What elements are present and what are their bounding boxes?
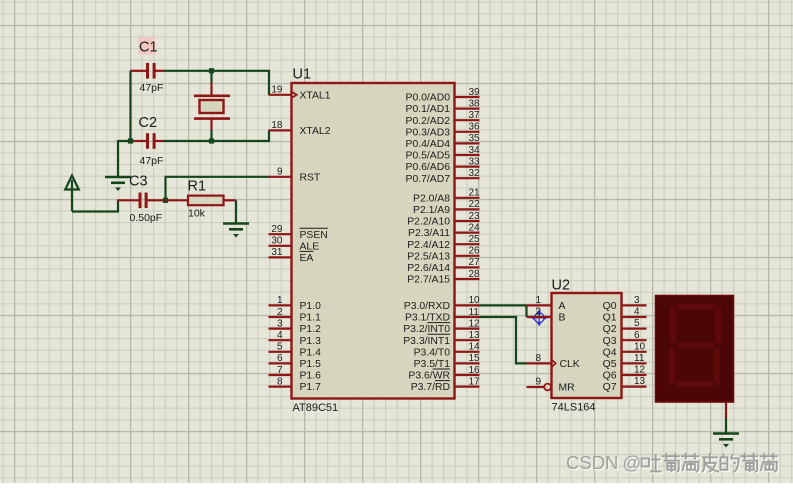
U2 pin 13 Q7 <box>603 376 647 393</box>
svg-text:P1.1: P1.1 <box>300 313 322 324</box>
C1 value 47pF <box>140 82 164 94</box>
svg-text:P0.4/AD4: P0.4/AD4 <box>406 139 451 150</box>
svg-text:P2.6/A14: P2.6/A14 <box>407 263 450 274</box>
wire R1 to ground <box>235 200 237 223</box>
svg-text:P1.7: P1.7 <box>300 382 322 393</box>
node marker (blue crosshair at U2 pin B) <box>531 310 548 327</box>
svg-text:P3.7/RD: P3.7/RD <box>411 382 450 393</box>
svg-text:38: 38 <box>469 98 481 109</box>
svg-text:P3.3/INT1: P3.3/INT1 <box>403 336 450 347</box>
svg-text:P0.5/AD5: P0.5/AD5 <box>406 151 451 162</box>
svg-text:36: 36 <box>469 122 481 133</box>
svg-text:29: 29 <box>271 224 283 235</box>
wire P3.0/RXD to U2 A <box>480 304 527 306</box>
junction crystal top <box>209 68 214 73</box>
svg-text:XTAL1: XTAL1 <box>300 90 331 101</box>
U1 pin 11 P3.1/TXD <box>405 307 480 324</box>
svg-text:13: 13 <box>469 330 481 341</box>
U1 pin 34 P0.5/AD5 <box>406 145 481 162</box>
svg-text:P2.2/A10: P2.2/A10 <box>407 217 450 228</box>
svg-text:5: 5 <box>634 318 640 329</box>
svg-text:P3.6/WR: P3.6/WR <box>408 371 450 382</box>
svg-text:P2.5/A13: P2.5/A13 <box>407 251 450 262</box>
svg-text:2: 2 <box>535 307 541 318</box>
U1 pin 1 P1.0 <box>269 295 322 312</box>
svg-text:37: 37 <box>469 110 481 121</box>
U1 pin 6 P1.5 <box>269 353 322 370</box>
svg-text:1: 1 <box>277 295 283 306</box>
svg-text:Q3: Q3 <box>603 336 617 347</box>
svg-text:@: @ <box>623 452 642 473</box>
7-segment display <box>656 296 734 403</box>
U1 pin 3 P1.2 <box>269 318 322 335</box>
svg-text:P0.6/AD6: P0.6/AD6 <box>406 162 451 173</box>
wire power arrow to C3 <box>72 200 118 211</box>
svg-text:16: 16 <box>469 365 481 376</box>
U2 pin 8 CLK <box>527 353 580 370</box>
U1 pin 21 P2.0/A8 <box>413 188 480 205</box>
U1 pin 29 PSEN <box>269 224 328 241</box>
ground (below display) <box>713 434 739 448</box>
U1 pin 32 P0.7/AD7 <box>406 168 481 185</box>
wire top rail C1 to XTAL1 <box>163 71 269 95</box>
svg-text:19: 19 <box>271 85 283 96</box>
junction C3/R1/RST node <box>163 198 168 203</box>
svg-text:P3.5/T1: P3.5/T1 <box>414 359 451 370</box>
svg-text:P2.0/A8: P2.0/A8 <box>413 193 450 204</box>
U1 pin 17 P3.7/RD <box>411 376 480 393</box>
svg-text:11: 11 <box>469 307 480 318</box>
svg-text:CSDN: CSDN <box>566 452 618 473</box>
svg-text:3: 3 <box>634 295 640 306</box>
svg-text:74LS164: 74LS164 <box>552 402 596 414</box>
watermark CSDN <box>566 452 779 474</box>
U2 pin 11 Q5 <box>603 353 647 370</box>
svg-text:P3.4/T0: P3.4/T0 <box>414 347 451 358</box>
svg-text:P1.6: P1.6 <box>300 371 322 382</box>
svg-text:C1: C1 <box>139 40 158 56</box>
ic U1 AT89C51 body <box>292 67 455 415</box>
svg-text:6: 6 <box>277 353 283 364</box>
svg-text:P2.1/A9: P2.1/A9 <box>413 205 450 216</box>
svg-text:8: 8 <box>277 376 283 387</box>
svg-text:R1: R1 <box>188 179 207 195</box>
wire RST net <box>166 177 270 201</box>
ic U2 74LS164 body <box>552 278 622 414</box>
svg-text:P1.5: P1.5 <box>300 359 322 370</box>
svg-text:11: 11 <box>634 353 645 364</box>
svg-text:8: 8 <box>535 353 541 364</box>
svg-text:P2.3/A11: P2.3/A11 <box>408 228 450 239</box>
U1 pin 12 P3.2/INT0 <box>403 318 480 335</box>
svg-text:12: 12 <box>469 318 481 329</box>
U1 pin 28 P2.7/A15 <box>407 269 480 286</box>
svg-text:39: 39 <box>469 87 481 98</box>
svg-text:15: 15 <box>469 353 481 364</box>
svg-text:Q5: Q5 <box>603 359 617 370</box>
U2 pin 4 Q1 <box>603 307 647 324</box>
wire bottom rail C2 to XTAL2 <box>163 130 269 141</box>
svg-text:Q6: Q6 <box>603 371 617 382</box>
svg-text:0.50pF: 0.50pF <box>130 212 163 224</box>
svg-text:P3.0/RXD: P3.0/RXD <box>404 301 450 312</box>
svg-text:MR: MR <box>559 383 576 394</box>
svg-text:31: 31 <box>271 247 283 258</box>
svg-text:24: 24 <box>469 222 481 233</box>
svg-text:P2.4/A12: P2.4/A12 <box>407 240 450 251</box>
svg-text:RST: RST <box>300 172 321 183</box>
svg-text:7: 7 <box>277 365 283 376</box>
svg-text:P2.7/A15: P2.7/A15 <box>407 275 450 286</box>
junction C1/C2/ground node <box>128 138 133 143</box>
crystal X1 <box>194 71 230 141</box>
svg-text:A: A <box>559 301 566 312</box>
svg-text:P0.0/AD0: P0.0/AD0 <box>406 93 451 104</box>
U1 pin 35 P0.4/AD4 <box>406 133 481 150</box>
svg-text:10k: 10k <box>188 208 206 220</box>
svg-text:12: 12 <box>634 365 646 376</box>
svg-text:9: 9 <box>277 167 283 178</box>
svg-text:28: 28 <box>469 269 481 280</box>
wire C1 left to C2 junction <box>129 71 131 141</box>
svg-text:27: 27 <box>469 257 481 268</box>
U1 pin 31 EA <box>269 247 314 264</box>
U2 pin 12 Q6 <box>603 365 647 382</box>
U2 pin 5 Q2 <box>603 318 647 335</box>
svg-text:Q7: Q7 <box>603 382 617 393</box>
svg-text:P1.0: P1.0 <box>300 301 322 312</box>
svg-text:9: 9 <box>535 377 541 388</box>
ground (near C3) <box>105 177 131 191</box>
U1 pin 27 P2.6/A14 <box>407 257 480 274</box>
svg-text:P1.2: P1.2 <box>300 324 322 335</box>
svg-text:10: 10 <box>634 341 646 352</box>
svg-text:ALE: ALE <box>300 241 320 252</box>
U1 pin 23 P2.2/A10 <box>407 211 480 228</box>
svg-text:2: 2 <box>277 307 283 318</box>
U1 pin 22 P2.1/A9 <box>413 199 480 216</box>
svg-text:22: 22 <box>469 199 481 210</box>
U1 pin 10 P3.0/RXD <box>404 295 480 312</box>
svg-text:P1.3: P1.3 <box>300 336 322 347</box>
svg-text:35: 35 <box>469 133 481 144</box>
svg-text:33: 33 <box>469 156 481 167</box>
U1 pin 2 P1.1 <box>269 307 322 324</box>
U1 pin 33 P0.6/AD6 <box>406 156 481 173</box>
U1 pin 39 P0.0/AD0 <box>406 87 481 104</box>
U1 pin 37 P0.2/AD2 <box>406 110 481 127</box>
svg-text:14: 14 <box>469 342 481 353</box>
svg-text:10: 10 <box>469 295 481 306</box>
svg-text:Q2: Q2 <box>603 324 617 335</box>
svg-text:17: 17 <box>469 376 481 387</box>
svg-text:P0.1/AD1: P0.1/AD1 <box>406 104 451 115</box>
U1 pin 13 P3.3/INT1 <box>403 330 480 347</box>
svg-text:25: 25 <box>469 234 481 245</box>
C2 value 47pF <box>140 155 164 167</box>
U2 pin 2 B <box>527 307 566 324</box>
svg-text:P0.2/AD2: P0.2/AD2 <box>406 116 451 127</box>
U1 pin 16 P3.6/WR <box>408 365 480 382</box>
U1 pin 24 P2.3/A11 <box>408 222 480 239</box>
junction crystal bottom <box>209 138 214 143</box>
svg-text:P1.4: P1.4 <box>300 347 322 358</box>
svg-text:CLK: CLK <box>560 359 580 370</box>
svg-text:3: 3 <box>277 318 283 329</box>
U2 pin 1 A <box>527 295 566 312</box>
U1 pin 36 P0.3/AD3 <box>406 122 481 139</box>
svg-text:XTAL2: XTAL2 <box>300 126 331 137</box>
svg-text:30: 30 <box>271 236 283 247</box>
svg-text:U2: U2 <box>552 278 571 294</box>
U1 pin 26 P2.5/A13 <box>407 246 480 263</box>
svg-text:AT89C51: AT89C51 <box>293 402 339 414</box>
resistor R1 <box>166 179 237 206</box>
U1 pin 9 RST <box>269 167 321 184</box>
display pin wire <box>725 402 727 433</box>
svg-text:4: 4 <box>277 330 283 341</box>
U1 pin 38 P0.1/AD1 <box>406 98 481 115</box>
svg-text:5: 5 <box>277 342 283 353</box>
U1 pin 8 P1.7 <box>269 376 322 393</box>
capacitor C1 <box>131 38 164 79</box>
svg-text:1: 1 <box>535 295 541 306</box>
svg-text:23: 23 <box>469 211 481 222</box>
svg-text:PSEN: PSEN <box>300 230 328 241</box>
wire junction to ground <box>118 141 131 177</box>
svg-text:6: 6 <box>634 330 640 341</box>
svg-text:26: 26 <box>469 246 481 257</box>
svg-text:47pF: 47pF <box>140 155 164 167</box>
svg-text:47pF: 47pF <box>140 82 164 94</box>
svg-text:P0.7/AD7: P0.7/AD7 <box>406 174 451 185</box>
svg-text:C2: C2 <box>139 115 158 131</box>
wire P3.1/TXD to U2 CLK <box>480 317 527 363</box>
C3 value 0.50pF <box>130 212 163 224</box>
svg-text:EA: EA <box>300 253 314 264</box>
svg-text:B: B <box>559 313 566 324</box>
U1 pin 5 P1.4 <box>269 342 322 359</box>
capacitor C3 <box>117 174 164 209</box>
svg-text:21: 21 <box>469 188 481 199</box>
U1 pin 15 P3.5/T1 <box>414 353 480 370</box>
U1 pin 19 XTAL1 <box>269 85 331 102</box>
capacitor C2 <box>133 115 163 149</box>
svg-text:Q4: Q4 <box>603 347 617 358</box>
U1 pin 14 P3.4/T0 <box>414 342 480 359</box>
svg-text:P3.2/INT0: P3.2/INT0 <box>403 324 450 335</box>
U2 pin 9 MR <box>527 377 576 394</box>
svg-text:P3.1/TXD: P3.1/TXD <box>405 313 450 324</box>
power terminal arrow <box>65 176 79 212</box>
svg-text:U1: U1 <box>293 67 312 83</box>
wire U2 A to B tie <box>525 305 527 318</box>
U1 pin 30 ALE <box>269 236 320 253</box>
U2 pin 3 Q0 <box>603 295 647 312</box>
ground (below R1) <box>223 224 249 238</box>
svg-text:13: 13 <box>634 376 646 387</box>
svg-text:Q0: Q0 <box>603 301 617 312</box>
svg-text:32: 32 <box>469 168 481 179</box>
U1 pin 4 P1.3 <box>269 330 322 347</box>
U2 pin 6 Q3 <box>603 330 647 347</box>
svg-text:P0.3/AD3: P0.3/AD3 <box>406 127 451 138</box>
U1 pin 18 XTAL2 <box>269 120 331 137</box>
U2 pin 10 Q4 <box>603 341 647 358</box>
R1 value 10k <box>188 208 206 220</box>
svg-text:Q1: Q1 <box>603 313 617 324</box>
svg-text:18: 18 <box>271 120 283 131</box>
U1 pin 7 P1.6 <box>269 365 322 382</box>
svg-text:4: 4 <box>634 307 640 318</box>
svg-text:C3: C3 <box>129 174 148 190</box>
U1 pin 25 P2.4/A12 <box>407 234 480 251</box>
svg-text:34: 34 <box>469 145 481 156</box>
